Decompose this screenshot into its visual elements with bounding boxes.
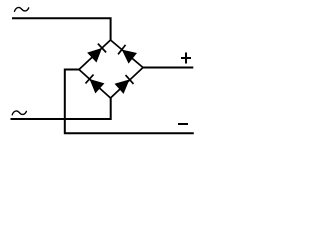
diode D1 (upper-left edge, pointing to top node)	[79, 40, 111, 70]
diode D2 (upper-right edge, pointing to top node)	[111, 40, 144, 68]
AC input symbol ~ (top)	[15, 7, 29, 11]
wire: top AC line into top node	[12, 18, 111, 40]
AC input symbol ~ (bottom)	[12, 111, 26, 115]
diode D4 (lower-right edge, pointing to right node)	[111, 68, 144, 99]
label: + output terminal	[181, 53, 191, 64]
diode D3 (lower-left edge, pointing to left node)	[79, 70, 111, 99]
label: − output terminal	[178, 123, 188, 125]
wire: bottom AC line into bottom node	[11, 98, 111, 119]
wire: left node stub, down past AC line, to minus rail	[65, 70, 194, 134]
wire: plus output from right node	[143, 67, 193, 69]
